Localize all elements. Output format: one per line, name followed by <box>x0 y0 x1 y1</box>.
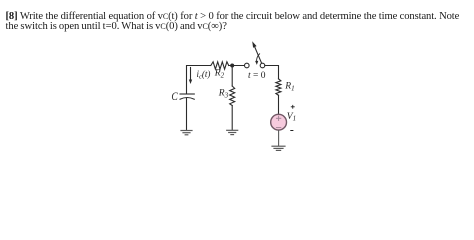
wire junction to R3 <box>231 66 233 87</box>
current arrow ic(t) <box>189 68 192 85</box>
switch right contact <box>260 63 265 68</box>
label V1 minus <box>290 130 293 132</box>
ground (right, below V1) <box>272 146 285 150</box>
svg-text:R1: R1 <box>284 82 294 93</box>
resistor R3 <box>230 86 235 106</box>
svg-text:ic(t): ic(t) <box>197 69 211 81</box>
wire V1 to ground <box>278 130 280 146</box>
label V1 plus <box>291 105 295 109</box>
ground (middle, below R3) <box>227 130 238 134</box>
switch left contact <box>245 63 250 68</box>
ground (left, below C) <box>181 131 192 135</box>
resistor R2 <box>211 62 229 69</box>
wire top-left segment <box>187 66 211 95</box>
svg-text:t = 0: t = 0 <box>248 71 266 81</box>
node junction dot <box>230 64 234 68</box>
wire capacitor to ground <box>186 98 188 130</box>
svg-text:V1: V1 <box>287 112 296 122</box>
resistor R1 <box>276 79 281 96</box>
svg-text:R2: R2 <box>214 69 225 80</box>
capacitor C <box>180 94 194 99</box>
switch blade with arrow <box>252 41 261 63</box>
svg-text:C: C <box>171 90 178 103</box>
wire switch to right corner <box>265 66 279 80</box>
wire R2 to switch <box>229 65 245 67</box>
wire R3 to ground <box>231 106 233 130</box>
voltage source V1 <box>271 114 287 130</box>
wire R1 to V1 <box>278 95 280 114</box>
svg-text:R3: R3 <box>218 89 229 100</box>
switch motion arrow t=0 <box>255 54 260 65</box>
